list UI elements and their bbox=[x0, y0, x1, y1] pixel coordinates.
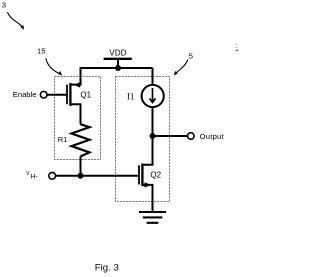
Enable terminal bbox=[40, 91, 47, 98]
junction dot output node bbox=[150, 133, 156, 139]
Q2 source arrow (NMOS) bbox=[145, 182, 151, 187]
junction dot at VDD node bbox=[115, 65, 121, 71]
wire Enable to Q1 gate bbox=[47, 94, 66, 96]
wire I1 to output node bbox=[152, 108, 154, 137]
current source I1 bbox=[142, 85, 164, 107]
svg-text:I1: I1 bbox=[127, 92, 134, 102]
svg-text:15: 15 bbox=[37, 46, 45, 55]
wire R1 to VH- rail bbox=[80, 156, 82, 175]
svg-text:3: 3 bbox=[2, 0, 6, 9]
svg-text:H-: H- bbox=[31, 174, 38, 181]
Q1 source arrow (PMOS) bbox=[74, 82, 80, 88]
svg-text:Output: Output bbox=[200, 132, 225, 141]
svg-text:Q1: Q1 bbox=[80, 90, 91, 99]
dashed enclosure 15 (around Q1 and R1) bbox=[55, 77, 101, 160]
svg-text:5: 5 bbox=[189, 51, 193, 60]
svg-text:Fig. 3: Fig. 3 bbox=[95, 262, 119, 273]
svg-text:Q2: Q2 bbox=[150, 171, 161, 180]
wire output node to terminal bbox=[153, 135, 188, 137]
svg-text:V: V bbox=[26, 171, 30, 177]
transistor Q1 bbox=[67, 68, 81, 124]
svg-text:VDD: VDD bbox=[109, 48, 127, 57]
wire rail to I1 bbox=[152, 68, 154, 84]
transistor Q2 bbox=[139, 136, 153, 211]
svg-text:Enable: Enable bbox=[13, 90, 37, 99]
resistor R1 bbox=[72, 124, 90, 156]
junction dot R1 / VH- bbox=[78, 173, 84, 179]
VDD power rail bar bbox=[104, 58, 132, 60]
wire top rail bbox=[80, 67, 153, 69]
wire VH- to Q2 gate bbox=[56, 175, 139, 177]
ground bbox=[139, 212, 166, 223]
leader arrow from 3 bbox=[7, 12, 22, 26]
VH- terminal bbox=[49, 172, 56, 179]
svg-text:R1: R1 bbox=[58, 135, 68, 144]
leader arrow from 5 bbox=[176, 60, 188, 73]
leader arrow from 15 bbox=[46, 58, 58, 73]
Output terminal bbox=[188, 133, 195, 140]
page edge artifact marks bbox=[236, 44, 238, 45]
dashed enclosure 5 (around I1 and Q2) bbox=[116, 77, 170, 202]
wire VDD stub bbox=[117, 59, 119, 68]
